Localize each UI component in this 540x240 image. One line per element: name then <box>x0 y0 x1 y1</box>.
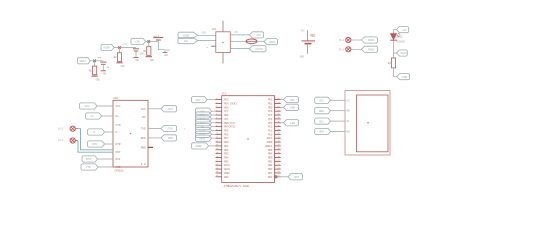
svg-text:RED0603: RED0603 <box>397 40 406 43</box>
U$2 right pin TXD <box>148 125 177 131</box>
svg-text:RXD: RXD <box>141 137 146 140</box>
svg-text:SDA: SDA <box>290 106 295 109</box>
svg-text:DTR: DTR <box>92 143 97 146</box>
svg-text:CP2102: CP2102 <box>115 170 124 173</box>
wire node to R4 <box>393 53 395 58</box>
svg-text:RST: RST <box>268 176 273 179</box>
svg-text:AREF2: AREF2 <box>265 145 273 148</box>
svg-text:D-: D- <box>116 131 120 134</box>
svg-text:GND: GND <box>346 110 350 113</box>
svg-text:ADC7: ADC7 <box>267 137 273 140</box>
svg-text:PD5: PD5 <box>224 129 229 132</box>
svg-text:VIN: VIN <box>135 41 140 44</box>
flag net SCK to IC2 <box>196 120 216 126</box>
flag net TXO to U$2 <box>81 164 113 170</box>
svg-text:VOUT: VOUT <box>269 41 276 44</box>
flag net RXD to IC2 <box>196 108 216 114</box>
svg-text:+5V: +5V <box>402 29 407 32</box>
ground under R2 <box>116 63 125 68</box>
svg-text:PB3: PB3 <box>224 153 229 156</box>
svg-text:RST: RST <box>294 176 299 179</box>
svg-text:PB7(XT2): PB7(XT2) <box>224 125 236 129</box>
svg-text:PD2: PD2 <box>268 99 273 102</box>
svg-text:VUSB: VUSB <box>103 47 110 50</box>
LED LED1 <box>390 33 405 43</box>
svg-text:VBAT: VBAT <box>80 60 87 63</box>
svg-text:PB6(XT1): PB6(XT1) <box>224 121 236 125</box>
capacitor C2 <box>133 49 145 62</box>
svg-text:TXO: TXO <box>116 166 121 169</box>
svg-text:SCL: SCL <box>319 120 324 123</box>
svg-text:SDA: SDA <box>319 131 324 134</box>
flag net PD3 to IC2 pin1 <box>192 97 216 103</box>
flag net OC1A to IC2 <box>196 127 216 133</box>
svg-text:PC0: PC0 <box>268 133 273 136</box>
svg-text:x: x <box>184 127 186 130</box>
svg-text:PD3: PD3 <box>224 99 229 102</box>
svg-text:PB1: PB1 <box>224 145 229 148</box>
wire IC1 pin4 <box>230 48 249 50</box>
svg-text:VCC: VCC <box>85 105 90 108</box>
svg-text:SDA: SDA <box>346 131 350 134</box>
svg-text:AREF: AREF <box>196 145 203 148</box>
svg-text:D-: D- <box>93 131 97 134</box>
svg-text:PB1: PB1 <box>268 164 273 167</box>
svg-text:PB4: PB4 <box>224 157 229 160</box>
svg-text:LED: LED <box>290 122 295 125</box>
svg-text:X1-2: X1-2 <box>58 127 64 130</box>
svg-text:DTR: DTR <box>116 143 121 146</box>
svg-text:GND: GND <box>402 76 407 79</box>
regulator IC1 body <box>212 28 230 52</box>
svg-text:VUSB: VUSB <box>183 34 190 37</box>
junction mark x <box>184 127 186 130</box>
wire LED1 to node <box>393 40 395 53</box>
svg-text:TXD: TXD <box>141 128 146 131</box>
pad P2 <box>339 47 361 52</box>
svg-text:+5V: +5V <box>234 31 238 34</box>
svg-text:GND: GND <box>135 59 139 62</box>
svg-text:GND: GND <box>150 59 155 62</box>
svg-text:GND: GND <box>224 114 229 117</box>
svg-text:X1-1: X1-1 <box>58 139 64 142</box>
flag net VCC to display <box>315 97 351 103</box>
U$2 right pin RXD <box>148 135 177 141</box>
svg-text:RST: RST <box>116 151 121 154</box>
svg-text:GND: GND <box>300 56 305 59</box>
svg-text:ADC6: ADC6 <box>224 168 230 171</box>
svg-text:VIN: VIN <box>202 32 206 35</box>
regulator IC1 pin3 stub <box>207 46 216 49</box>
svg-text:PB2: PB2 <box>224 149 229 152</box>
svg-text:PD3: PD3 <box>196 99 201 102</box>
flag net DTR to U$2 <box>88 141 114 147</box>
flag net AREF to IC2 <box>192 143 216 149</box>
svg-text:R2: R2 <box>114 56 117 59</box>
svg-text:PD0: PD0 <box>268 106 273 109</box>
flag net SCL from IC2 <box>281 97 299 103</box>
svg-text:PB0: PB0 <box>224 141 229 144</box>
svg-text:U$6: U$6 <box>310 34 315 38</box>
flag net LED from IC2 <box>281 120 299 126</box>
svg-text:PD4 (XCK): PD4 (XCK) <box>224 101 237 105</box>
flag net VCC to U$2 <box>80 103 114 109</box>
flag net EN to IC1 <box>178 38 216 44</box>
resistor R4 <box>388 58 396 68</box>
svg-text:R3: R3 <box>143 50 146 53</box>
svg-text:VCC: VCC <box>224 110 229 113</box>
IC2 right pins <box>275 97 281 177</box>
svg-text:PD6: PD6 <box>224 133 229 136</box>
ground under R1 <box>91 76 100 81</box>
flag net D- to U$2 <box>88 129 114 135</box>
svg-text:PB3: PB3 <box>268 157 273 160</box>
wire IC1 OUT pin <box>230 31 249 35</box>
capacitor C3 <box>153 36 170 57</box>
U$2 right pin names <box>141 108 146 166</box>
svg-text:10u: 10u <box>166 49 171 52</box>
svg-text:GND: GND <box>121 65 126 68</box>
flag net RXI to U$2 <box>82 156 113 162</box>
svg-text:AIN0: AIN0 <box>200 137 206 140</box>
flag net D+ to U$2 <box>86 113 114 119</box>
battery U$6 label GND <box>300 56 305 59</box>
flag net GND at LED <box>394 74 410 80</box>
svg-text:R1: R1 <box>89 69 92 72</box>
IC2 right pin names <box>265 99 273 179</box>
svg-text:LED1: LED1 <box>397 36 403 39</box>
wire node to R2 <box>119 48 121 53</box>
svg-text:PD1: PD1 <box>268 102 273 105</box>
flag net OC1B to IC2 <box>196 131 216 137</box>
flag net VCC5V <box>249 46 266 52</box>
svg-text:PC6: PC6 <box>268 110 273 113</box>
flag net +5V at LED1 <box>394 27 409 34</box>
wire node to R1 <box>94 61 96 66</box>
IC2 body <box>222 92 275 188</box>
svg-text:GND: GND <box>103 72 107 75</box>
svg-text:2u: 2u <box>107 66 110 69</box>
flag net SDA from IC2 <box>281 104 299 110</box>
svg-text:PD7: PD7 <box>224 137 229 140</box>
svg-text:D+: D+ <box>91 115 95 118</box>
svg-text:GND: GND <box>224 106 229 109</box>
svg-text:PB0: PB0 <box>268 168 273 171</box>
battery U$6 <box>302 30 316 54</box>
ground under R3 <box>146 57 155 62</box>
svg-text:+: + <box>309 45 311 48</box>
resistor R1 <box>89 66 97 75</box>
U$2 left pin names <box>116 105 121 169</box>
svg-text:AVCC: AVCC <box>224 164 230 167</box>
svg-text:ALED: ALED <box>400 52 407 55</box>
svg-text:IC1: IC1 <box>212 28 217 31</box>
svg-text:PB4: PB4 <box>268 153 273 156</box>
flag net SS to IC2 <box>196 124 216 130</box>
flag net +5V <box>250 32 264 38</box>
battery U$6 label VCC <box>301 29 306 32</box>
flag net SCL to display <box>315 118 351 124</box>
svg-text:D+: D+ <box>116 115 120 118</box>
svg-text:TXD: TXD <box>168 128 173 131</box>
display U$5 outer <box>345 91 390 156</box>
svg-text:IC2: IC2 <box>222 92 227 95</box>
svg-text:1.8: 1.8 <box>141 163 146 166</box>
svg-text:R4: R4 <box>388 62 391 65</box>
wire F1 to flag <box>257 40 264 42</box>
wire R4 to GND flag <box>393 68 395 77</box>
wire IC1 pin2 <box>230 40 246 42</box>
svg-text:PAD2: PAD2 <box>368 48 375 51</box>
node junction 2 <box>118 42 127 49</box>
svg-text:3: 3 <box>207 46 209 49</box>
svg-text:PC5: PC5 <box>268 114 273 117</box>
flag net VIN <box>131 38 158 44</box>
svg-text:P1-1: P1-1 <box>339 39 345 42</box>
wire X1-2 to U$2 <box>78 129 113 150</box>
svg-text:RXI: RXI <box>116 158 121 161</box>
svg-text:PB5: PB5 <box>224 160 229 163</box>
wire R3 to ground <box>148 55 150 56</box>
svg-text:AREF: AREF <box>224 172 230 175</box>
svg-text:VCC: VCC <box>224 118 229 121</box>
flag net VOUT <box>264 39 278 45</box>
fuse F1 <box>246 39 257 47</box>
pad X1-2 <box>58 126 78 131</box>
flag net PAD1 <box>362 37 378 43</box>
flag net RST from IC2 <box>275 174 303 180</box>
svg-text:NC: NC <box>142 116 146 119</box>
node junction 1 <box>93 56 102 62</box>
svg-text:U$2: U$2 <box>114 96 119 100</box>
resistor R3 <box>143 47 151 56</box>
svg-text:GND: GND <box>319 110 324 113</box>
svg-text:PAD1: PAD1 <box>368 39 375 42</box>
svg-text:SCL: SCL <box>346 120 350 123</box>
flag net VUSB <box>101 44 136 50</box>
pad P1 <box>339 37 361 42</box>
svg-text:PC1: PC1 <box>268 129 273 132</box>
svg-text:PB5: PB5 <box>268 149 273 152</box>
svg-text:+5V: +5V <box>256 34 261 37</box>
svg-text:GND: GND <box>164 54 168 57</box>
svg-text:VCC5V: VCC5V <box>255 48 263 51</box>
flag net PAD2 <box>362 46 378 52</box>
flag net VBAT <box>78 58 104 64</box>
svg-text:RXD: RXD <box>168 137 173 140</box>
svg-text:CTS: CTS <box>116 124 121 127</box>
svg-text:P2-1: P2-1 <box>339 49 345 52</box>
wire node to R3 <box>148 41 150 46</box>
svg-text:RXI: RXI <box>86 158 91 161</box>
svg-text:3V3: 3V3 <box>168 108 173 111</box>
flag net AIN0 to IC2 <box>196 135 216 141</box>
svg-text:VCC: VCC <box>319 99 324 102</box>
svg-text:TXO: TXO <box>86 166 91 169</box>
svg-text:PD7: PD7 <box>268 172 273 175</box>
svg-text:PC4: PC4 <box>268 118 273 121</box>
svg-text:+3V3: +3V3 <box>97 56 102 59</box>
flag net VUSB to IC1 IN <box>178 32 216 39</box>
svg-text:VCC: VCC <box>116 105 121 108</box>
flag net GND to display <box>315 108 351 114</box>
svg-text:PC3: PC3 <box>268 122 273 125</box>
svg-text:GND: GND <box>96 78 101 81</box>
svg-text:PC2: PC2 <box>268 126 273 129</box>
display U$5 inner <box>356 95 388 152</box>
svg-text:GND: GND <box>224 176 229 179</box>
wire IC1 bottom pin <box>222 53 224 64</box>
svg-text:EN: EN <box>184 40 188 43</box>
flag net MOSI to IC2 <box>196 112 216 118</box>
svg-text:+3V3: +3V3 <box>122 42 127 45</box>
flag net SDA to display <box>315 128 351 134</box>
resistor R2 <box>114 53 122 62</box>
wire R2 to ground <box>119 61 121 62</box>
U$2 right pin GND <box>148 146 153 148</box>
wire R1 to ground <box>94 75 96 76</box>
flag net ALED <box>394 50 408 56</box>
node junction 3 <box>147 35 157 43</box>
wire IC1 top pin <box>222 21 224 32</box>
U$2 right pin 3V3 <box>148 106 177 112</box>
svg-text:SCL: SCL <box>290 99 295 102</box>
wire X1-1 to U$2 <box>78 141 113 153</box>
pad X1-1 <box>58 138 78 143</box>
svg-text:VCC: VCC <box>301 29 306 32</box>
IC2 left pins <box>216 97 222 177</box>
svg-text:GND: GND <box>141 147 146 150</box>
flag net MISO to IC2 <box>196 116 216 122</box>
IC U$2 body <box>113 96 148 173</box>
svg-text:PB2: PB2 <box>268 160 273 163</box>
svg-text:AGND: AGND <box>267 141 273 144</box>
svg-text:3V3: 3V3 <box>141 108 146 111</box>
IC2 left pin names <box>224 99 237 179</box>
svg-text:ATMEGA168/V-16AU: ATMEGA168/V-16AU <box>224 184 250 188</box>
svg-text:VCC: VCC <box>346 99 350 102</box>
capacitor C1 <box>100 62 110 75</box>
